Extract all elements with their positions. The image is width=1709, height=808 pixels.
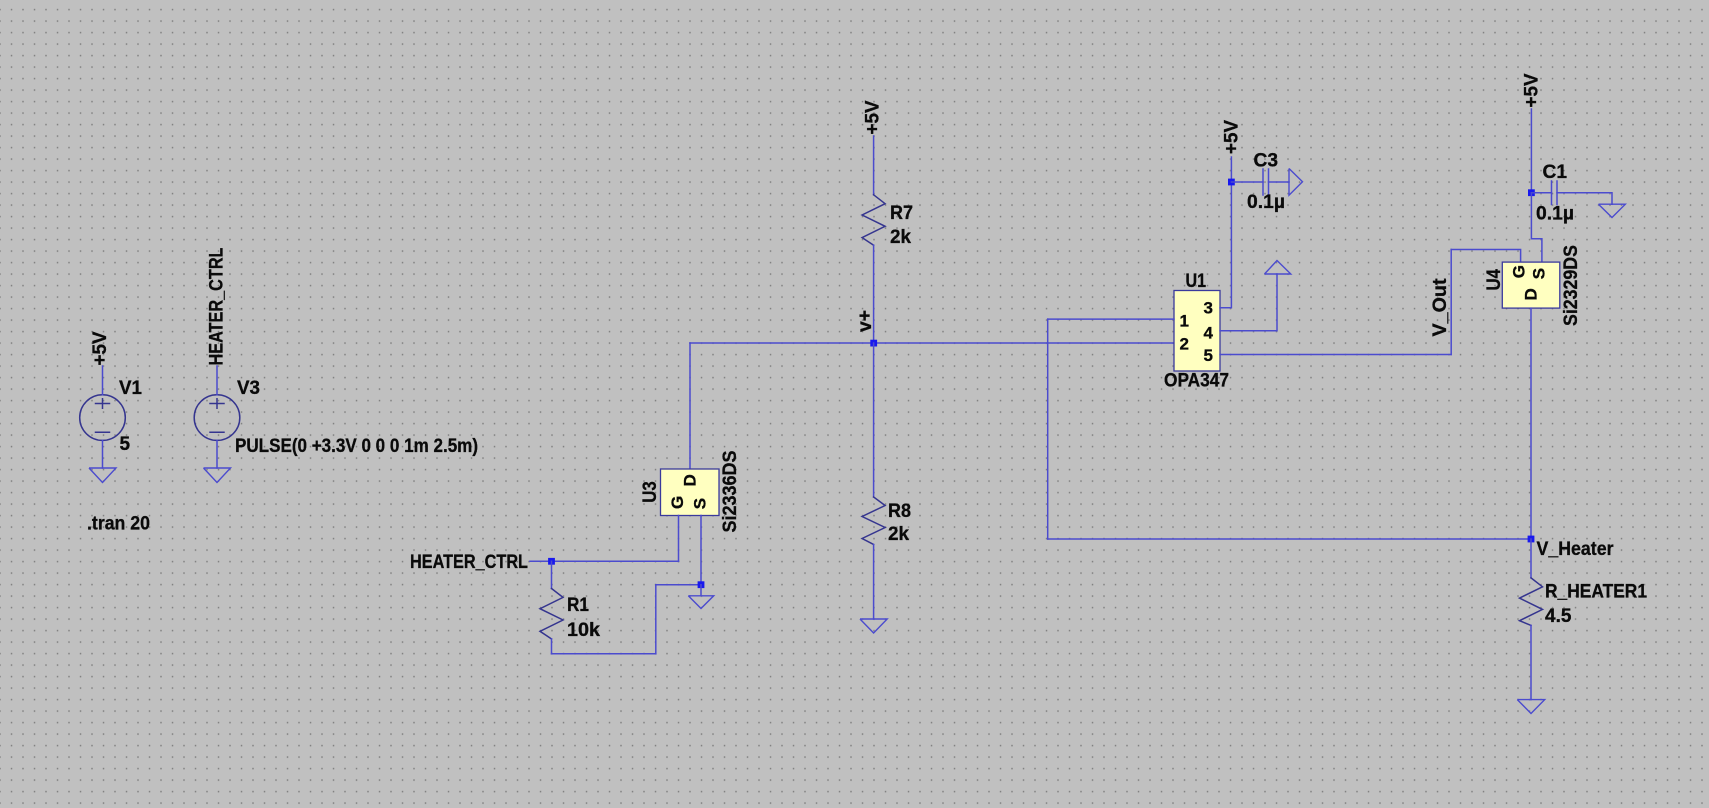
wire V_Out up xyxy=(1450,250,1452,355)
svg-text:S: S xyxy=(691,498,710,509)
ground below V3 xyxy=(204,468,231,483)
wire R1 bottom horizontal xyxy=(552,653,656,655)
node v+ junction xyxy=(870,340,877,347)
svg-text:Si2336DS: Si2336DS xyxy=(720,451,741,533)
svg-text:+5V: +5V xyxy=(1522,73,1543,107)
svg-text:2: 2 xyxy=(1180,335,1189,354)
svg-text:5: 5 xyxy=(120,434,131,455)
wire V1 bottom lead xyxy=(102,440,104,468)
wire node to C3 xyxy=(1231,181,1263,183)
svg-text:Si2329DS: Si2329DS xyxy=(1561,245,1582,326)
svg-text:OPA347: OPA347 xyxy=(1164,371,1229,392)
svg-text:4: 4 xyxy=(1204,323,1214,342)
wire R_HEATER1 to ground xyxy=(1530,625,1532,699)
svg-text:D: D xyxy=(681,474,700,486)
wire v+ to R8 xyxy=(873,343,875,497)
ground below C1 xyxy=(1599,204,1626,217)
wire to source node xyxy=(656,584,701,586)
svg-text:+5V: +5V xyxy=(90,331,111,365)
svg-text:5: 5 xyxy=(1204,346,1213,365)
wire bus down to U3 drain xyxy=(689,343,691,469)
svg-text:U4: U4 xyxy=(1484,269,1505,291)
svg-text:R7: R7 xyxy=(890,203,913,224)
node U3 source junction xyxy=(698,581,705,588)
wire pin5 V_Out horizontal xyxy=(1220,354,1451,356)
svg-text:3: 3 xyxy=(1204,299,1213,318)
wire R8 to ground xyxy=(873,545,875,620)
resistor R1 xyxy=(540,589,563,639)
wire C1 right xyxy=(1557,193,1612,205)
node HEATER_CTRL junction xyxy=(548,558,555,565)
wire pin3 to +5V node xyxy=(1220,182,1231,308)
svg-text:D: D xyxy=(1522,288,1541,300)
wire V_Heater to R_HEATER1 xyxy=(1530,539,1532,578)
wire V3 top lead xyxy=(216,366,218,395)
ground below V1 xyxy=(89,468,116,483)
svg-text:PULSE(0 +3.3V 0 0 0 1m 2.5m): PULSE(0 +3.3V 0 0 0 1m 2.5m) xyxy=(235,436,478,457)
svg-text:C3: C3 xyxy=(1254,150,1279,171)
svg-text:G: G xyxy=(1510,265,1529,278)
node C3 junction xyxy=(1228,179,1235,186)
svg-text:S: S xyxy=(1530,268,1549,279)
ground below U3 source xyxy=(688,596,713,609)
voltage source V3 xyxy=(194,395,240,441)
svg-text:V3: V3 xyxy=(237,378,260,399)
wire HEATER_CTRL to gate xyxy=(530,560,679,562)
mosfet U4 body xyxy=(1502,262,1560,308)
svg-text:R1: R1 xyxy=(567,595,589,616)
ground right of C3 xyxy=(1289,169,1303,196)
wire C3 to ground xyxy=(1269,181,1290,183)
svg-text:V_Out: V_Out xyxy=(1430,278,1451,337)
wire +5V to C1 node xyxy=(1530,109,1532,193)
node C1 junction xyxy=(1528,189,1535,196)
ground above pin4 xyxy=(1265,261,1291,275)
wire pin1 left xyxy=(1048,318,1174,320)
wire V3 bottom lead xyxy=(216,440,218,468)
resistor R7 xyxy=(862,195,885,245)
svg-text:+5V: +5V xyxy=(1222,120,1243,154)
wire C1 node down to U4 xyxy=(1531,193,1542,262)
resistor R8 xyxy=(862,497,885,545)
wire horizontal bus v+ xyxy=(690,342,1174,344)
wire U3 source down xyxy=(700,516,702,585)
svg-text:U1: U1 xyxy=(1186,271,1207,292)
svg-text:v+: v+ xyxy=(855,310,876,332)
wire R1 bottom xyxy=(551,639,553,654)
capacitor C1 xyxy=(1552,181,1558,205)
wire pin1 down xyxy=(1047,319,1049,539)
svg-text:1: 1 xyxy=(1180,311,1189,330)
svg-text:HEATER_CTRL: HEATER_CTRL xyxy=(410,552,528,573)
mosfet U3 body xyxy=(661,469,720,516)
svg-text:U3: U3 xyxy=(640,481,661,503)
svg-text:V1: V1 xyxy=(119,378,142,399)
wire +5V stub above C3 node xyxy=(1230,157,1232,182)
wire pin4 to up ground xyxy=(1220,274,1277,331)
svg-text:0.1µ: 0.1µ xyxy=(1536,204,1574,225)
svg-text:C1: C1 xyxy=(1543,162,1568,183)
wire source node to ground xyxy=(700,585,702,596)
svg-text:+5V: +5V xyxy=(863,100,884,134)
svg-text:.tran 20: .tran 20 xyxy=(87,514,150,535)
svg-text:2k: 2k xyxy=(888,524,909,545)
node V_Heater junction xyxy=(1528,536,1535,543)
svg-text:HEATER_CTRL: HEATER_CTRL xyxy=(206,247,227,365)
resistor R_HEATER1 xyxy=(1520,578,1543,626)
svg-text:R8: R8 xyxy=(888,501,911,522)
wire V_Out to U4 gate xyxy=(1451,250,1520,263)
svg-text:V_Heater: V_Heater xyxy=(1537,539,1615,560)
wire V1 top lead xyxy=(102,366,104,395)
wire node to C1 xyxy=(1531,192,1551,194)
svg-text:10k: 10k xyxy=(567,620,600,641)
capacitor C3 xyxy=(1263,169,1269,195)
wire U3 gate down xyxy=(678,516,680,562)
svg-text:R_HEATER1: R_HEATER1 xyxy=(1545,582,1647,603)
wire +5V to R7 xyxy=(873,136,875,195)
wire R7 to node v+ xyxy=(873,245,875,343)
wire V_Heater horizontal xyxy=(1048,538,1531,540)
svg-text:0.1µ: 0.1µ xyxy=(1247,192,1285,213)
wire up to source node xyxy=(655,585,657,654)
wire node to R1 xyxy=(551,561,553,588)
svg-text:4.5: 4.5 xyxy=(1545,606,1572,627)
ground below R8 xyxy=(860,619,887,633)
op-amp U1 body xyxy=(1174,291,1220,372)
svg-text:2k: 2k xyxy=(890,227,911,248)
voltage source V1 xyxy=(80,395,126,441)
ground below R_HEATER1 xyxy=(1517,700,1544,714)
wire U4 drain down xyxy=(1530,308,1532,539)
svg-text:G: G xyxy=(668,496,687,509)
